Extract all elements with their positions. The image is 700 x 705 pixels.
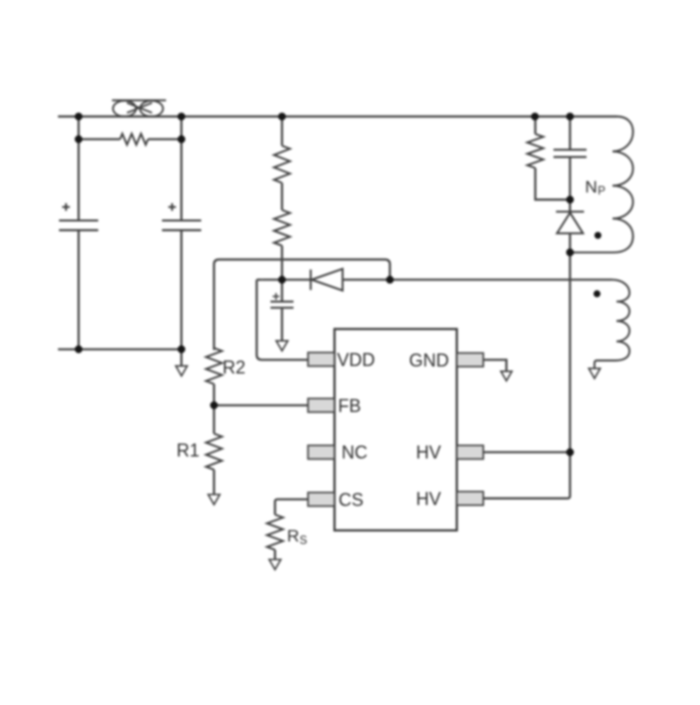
node junction 5 (566, 113, 574, 121)
node junction 9 (178, 345, 186, 353)
pin stub HV bottom (457, 492, 484, 506)
wire GND to ground (483, 360, 506, 372)
resistor R2 (206, 348, 222, 384)
resistor chain (startup, two in series) (281, 117, 283, 146)
ground (aux winding) (589, 368, 600, 378)
snubber capacitor (569, 117, 571, 150)
phase dot primary (594, 232, 601, 239)
node junction 4 (531, 113, 539, 121)
ground (R1) (208, 495, 220, 505)
node junction 6 (75, 135, 83, 143)
pin stub CS (308, 493, 335, 507)
pin stub GND (457, 353, 484, 367)
diode D2 (VDD rectifier, pointing left) (311, 269, 343, 291)
transformer secondary (aux) winding (595, 280, 630, 369)
svg-text:GND: GND (409, 350, 449, 370)
transformer primary winding NP (570, 117, 633, 253)
left rail wire (77, 117, 79, 221)
op-amp / controller IC U1 body (335, 329, 457, 530)
node junction 14 (210, 401, 218, 409)
node junction 10 (278, 276, 286, 284)
capacitor C2 (bulk electrolytic right) (162, 221, 201, 231)
ground (GND pin) (501, 371, 512, 381)
wire VDD node row (diode row) (262, 279, 311, 281)
wire CS to Rs (275, 499, 308, 514)
resistor R1 (206, 434, 222, 470)
capacitor C1 (bulk electrolytic left) (59, 221, 98, 231)
pin stub FB (308, 399, 335, 413)
svg-text:HV: HV (416, 489, 441, 509)
filter inductor L1 (choke with core bar) (112, 100, 166, 116)
svg-text:S: S (300, 535, 308, 547)
node junction 15 (566, 448, 574, 456)
diode D1 (clamp, pointing up) (569, 200, 571, 212)
ground (Rs) (269, 560, 281, 570)
resistor (filter damping) row (79, 138, 120, 140)
resistor Rs (267, 515, 283, 550)
ground (bottom bus) (176, 366, 187, 376)
wire inner loop to VDD pin (257, 280, 308, 360)
pin stub HV top (457, 445, 484, 459)
node junction 13 (566, 249, 574, 257)
mid rail wire (180, 117, 182, 221)
svg-text:CS: CS (339, 490, 364, 510)
wire bottom bus (58, 348, 182, 350)
node junction 2 (178, 113, 186, 121)
wire diode row to aux winding (343, 279, 612, 281)
node junction 11 (386, 276, 394, 284)
svg-text:HV: HV (416, 443, 441, 463)
pin stub VDD (308, 353, 335, 367)
pin stub NC (308, 445, 335, 459)
ground (VDD cap) (276, 341, 288, 351)
node junction 1 (75, 113, 83, 121)
svg-text:R1: R1 (177, 441, 200, 461)
snubber resistor (534, 117, 536, 135)
node junction 12 (566, 196, 574, 204)
node junction 8 (75, 345, 83, 353)
svg-text:N: N (585, 178, 597, 197)
wire HV top (483, 451, 570, 453)
node junction 3 (278, 113, 286, 121)
svg-text:R2: R2 (223, 358, 246, 378)
svg-text:P: P (598, 186, 606, 198)
svg-text:FB: FB (338, 396, 361, 416)
svg-text:R: R (287, 527, 299, 546)
phase dot secondary (594, 290, 601, 297)
wire top bus (58, 115, 617, 117)
wire outer loop (R2 top to diode node) (214, 260, 390, 351)
capacitor C3 (VDD cap) (281, 280, 283, 302)
node junction 7 (178, 135, 186, 143)
wire FB (214, 404, 308, 406)
svg-text:VDD: VDD (337, 350, 375, 370)
svg-text:NC: NC (342, 443, 368, 463)
wire HV rail vertical (483, 252, 570, 498)
